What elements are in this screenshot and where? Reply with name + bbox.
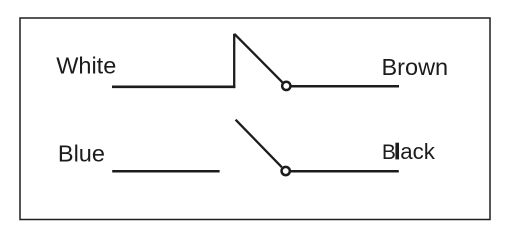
wire Black lead <box>291 170 399 173</box>
svg-text:ack: ack <box>400 139 436 164</box>
switch S2 blade <box>236 120 282 168</box>
svg-text:White: White <box>56 52 116 78</box>
switch S1 contact <box>282 82 290 90</box>
svg-text:B: B <box>382 141 396 164</box>
wire Blue lead <box>112 170 219 173</box>
switch S1 blade <box>234 34 282 83</box>
node Black <box>382 139 436 164</box>
svg-text:Brown: Brown <box>382 54 449 80</box>
svg-text:Blue: Blue <box>58 141 105 167</box>
switch S2 contact <box>282 167 290 175</box>
wire Brown lead <box>292 85 400 88</box>
wire White lead <box>112 85 235 88</box>
switch S1 pole riser <box>233 34 235 88</box>
